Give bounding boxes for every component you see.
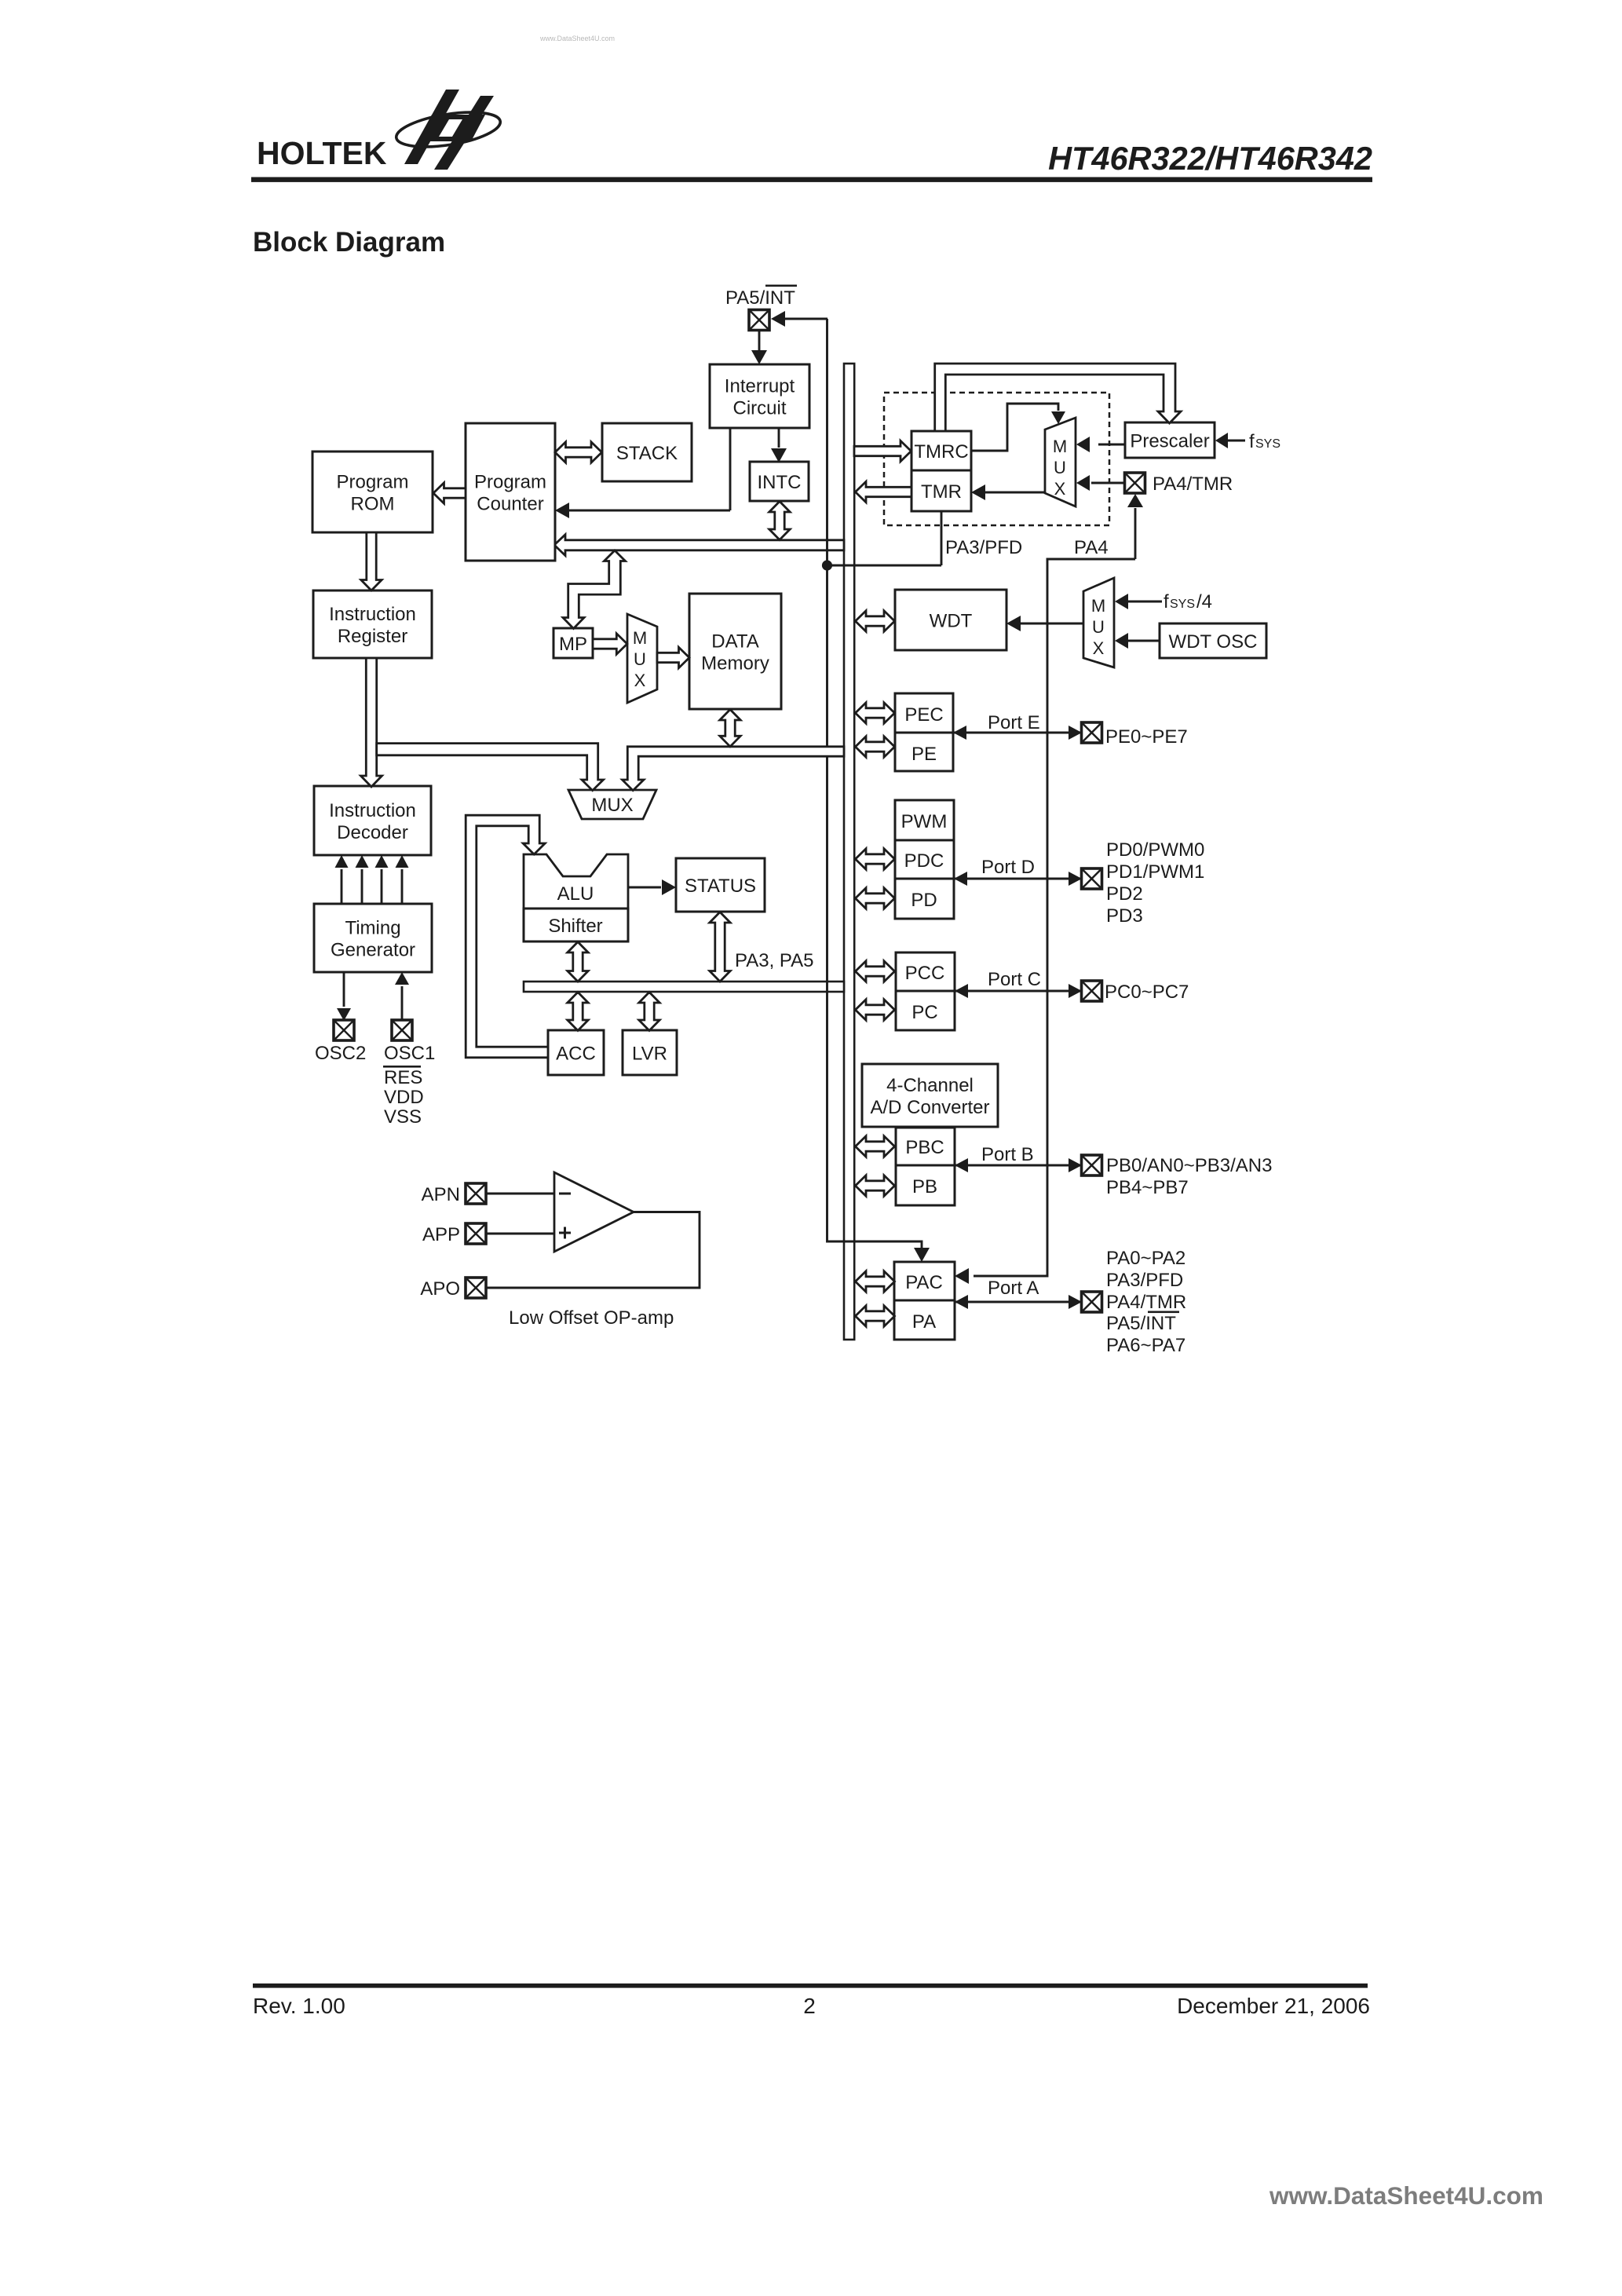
svg-text:December 21, 2006: December 21, 2006 <box>1177 1994 1370 2018</box>
svg-text:Shifter: Shifter <box>548 916 602 937</box>
svg-text:PD: PD <box>911 890 937 911</box>
svg-text:/4: /4 <box>1196 591 1212 612</box>
svg-text:PA4/TMR: PA4/TMR <box>1153 473 1233 495</box>
svg-text:APP: APP <box>422 1224 460 1245</box>
svg-text:Circuit: Circuit <box>732 398 786 419</box>
svg-text:LVR: LVR <box>632 1044 667 1065</box>
svg-text:HOLTEK: HOLTEK <box>257 135 387 171</box>
svg-text:PB0/AN0~PB3/AN3: PB0/AN0~PB3/AN3 <box>1106 1155 1272 1176</box>
svg-text:APO: APO <box>420 1278 460 1300</box>
svg-text:PCC: PCC <box>905 963 945 984</box>
svg-text:PAC: PAC <box>905 1272 943 1293</box>
svg-text:ALU: ALU <box>557 883 594 905</box>
svg-text:Program: Program <box>474 472 546 493</box>
svg-text:Instruction: Instruction <box>329 800 416 821</box>
svg-text:PA0~PA2: PA0~PA2 <box>1106 1248 1185 1269</box>
svg-text:Port B: Port B <box>981 1144 1034 1165</box>
svg-text:WDT: WDT <box>930 611 973 632</box>
svg-text:TMR: TMR <box>921 481 962 503</box>
svg-text:PWM: PWM <box>901 811 948 832</box>
svg-text:PA3/PFD: PA3/PFD <box>945 537 1022 558</box>
svg-text:PE: PE <box>911 744 937 765</box>
svg-text:MP: MP <box>559 634 587 655</box>
svg-text:Rev. 1.00: Rev. 1.00 <box>253 1994 345 2018</box>
svg-text:PA4: PA4 <box>1074 537 1109 558</box>
svg-text:TMRC: TMRC <box>914 441 968 462</box>
svg-text:Low Offset OP-amp: Low Offset OP-amp <box>509 1307 674 1329</box>
svg-text:Port E: Port E <box>988 712 1040 733</box>
svg-text:U: U <box>1054 458 1066 477</box>
svg-text:PB4~PB7: PB4~PB7 <box>1106 1177 1189 1198</box>
svg-text:RES: RES <box>384 1067 422 1088</box>
svg-text:PC: PC <box>911 1002 937 1023</box>
svg-text:Instruction: Instruction <box>329 604 416 625</box>
svg-text:Port D: Port D <box>981 857 1035 878</box>
svg-text:PA5/INT: PA5/INT <box>725 287 795 309</box>
svg-text:OSC1: OSC1 <box>384 1043 435 1064</box>
svg-text:PA3, PA5: PA3, PA5 <box>735 950 814 971</box>
svg-text:www.DataSheet4U.com: www.DataSheet4U.com <box>1269 2181 1543 2210</box>
svg-text:APN: APN <box>422 1184 460 1205</box>
svg-text:f: f <box>1164 591 1169 612</box>
svg-text:Memory: Memory <box>701 653 769 675</box>
svg-text:A/D Converter: A/D Converter <box>870 1097 989 1118</box>
svg-text:PEC: PEC <box>904 704 943 726</box>
svg-text:Interrupt: Interrupt <box>725 376 795 397</box>
svg-text:PBC: PBC <box>905 1137 944 1158</box>
svg-text:VDD: VDD <box>384 1087 424 1108</box>
svg-text:PD0/PWM0: PD0/PWM0 <box>1106 839 1204 861</box>
svg-text:STACK: STACK <box>616 443 678 464</box>
svg-text:PB: PB <box>912 1176 937 1197</box>
svg-text:PD1/PWM1: PD1/PWM1 <box>1106 861 1204 883</box>
svg-text:OSC2: OSC2 <box>315 1043 366 1064</box>
svg-text:Generator: Generator <box>331 940 415 961</box>
svg-text:Decoder: Decoder <box>337 822 408 843</box>
svg-text:PA: PA <box>912 1311 936 1333</box>
svg-text:SYS: SYS <box>1255 437 1280 451</box>
svg-text:PDC: PDC <box>904 850 944 872</box>
svg-text:U: U <box>1092 617 1105 637</box>
svg-text:X: X <box>1093 638 1105 658</box>
svg-text:M: M <box>1091 596 1105 616</box>
svg-text:WDT OSC: WDT OSC <box>1169 631 1258 653</box>
svg-text:HT46R322/HT46R342: HT46R322/HT46R342 <box>1048 140 1372 177</box>
svg-text:4-Channel: 4-Channel <box>886 1075 974 1096</box>
svg-text:PA6~PA7: PA6~PA7 <box>1106 1335 1185 1356</box>
svg-text:PD2: PD2 <box>1106 883 1143 905</box>
svg-text:Timing: Timing <box>345 918 400 939</box>
svg-text:PE0~PE7: PE0~PE7 <box>1105 726 1188 748</box>
svg-text:PA3/PFD: PA3/PFD <box>1106 1270 1183 1291</box>
svg-text:DATA: DATA <box>711 631 758 653</box>
svg-text:Register: Register <box>338 626 407 647</box>
svg-text:INTC: INTC <box>758 472 802 493</box>
svg-text:Prescaler: Prescaler <box>1130 431 1209 452</box>
svg-text:X: X <box>634 671 646 690</box>
svg-text:Counter: Counter <box>477 494 543 515</box>
svg-text:PC0~PC7: PC0~PC7 <box>1105 982 1189 1003</box>
svg-text:ACC: ACC <box>556 1044 596 1065</box>
svg-text:X: X <box>1054 479 1066 499</box>
svg-text:MUX: MUX <box>591 795 633 816</box>
svg-text:PD3: PD3 <box>1106 905 1143 927</box>
svg-text:M: M <box>1053 437 1067 456</box>
svg-text:STATUS: STATUS <box>685 876 756 897</box>
svg-text:www.DataSheet4U.com: www.DataSheet4U.com <box>539 35 615 42</box>
svg-text:Port A: Port A <box>988 1278 1039 1299</box>
svg-text:2: 2 <box>803 1994 816 2018</box>
svg-text:SYS: SYS <box>1170 598 1195 611</box>
svg-text:Program: Program <box>336 472 408 493</box>
svg-text:VSS: VSS <box>384 1106 422 1128</box>
svg-text:U: U <box>634 649 646 669</box>
svg-text:Port C: Port C <box>988 969 1041 990</box>
svg-text:Block Diagram: Block Diagram <box>253 227 445 258</box>
svg-text:f: f <box>1249 431 1255 452</box>
svg-text:M: M <box>633 628 647 648</box>
svg-text:PA4/TMR: PA4/TMR <box>1106 1292 1186 1313</box>
svg-text:PA5/INT: PA5/INT <box>1106 1313 1176 1334</box>
svg-text:ROM: ROM <box>351 494 395 515</box>
